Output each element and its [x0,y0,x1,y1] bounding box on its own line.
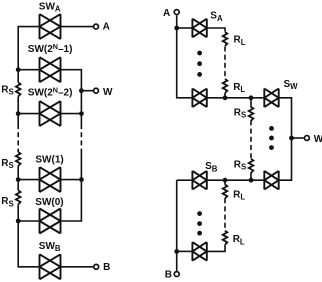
svg-text:A: A [103,22,110,33]
svg-text:RS: RS [234,159,246,171]
svg-text:B: B [165,270,172,281]
svg-text:RS: RS [1,196,13,208]
svg-text:SA: SA [210,11,223,23]
svg-text:SW(1): SW(1) [35,154,63,165]
svg-text:B: B [103,262,110,273]
svg-text:SW(2N–2): SW(2N–2) [28,85,73,98]
svg-text:SWB: SWB [39,241,61,253]
svg-text:SW(2N–1): SW(2N–1) [28,42,73,55]
svg-text:A: A [163,8,170,19]
svg-text:RS: RS [234,108,246,120]
svg-text:W: W [314,134,322,145]
svg-text:RL: RL [233,190,245,202]
svg-text:RL: RL [233,234,245,246]
svg-text:RS: RS [1,85,13,97]
svg-text:RL: RL [234,35,246,47]
svg-text:SW: SW [284,79,299,91]
svg-text:RS: RS [1,158,13,170]
svg-text:SWA: SWA [39,1,61,13]
svg-text:W: W [103,87,113,98]
svg-text:SW(0): SW(0) [35,197,63,208]
svg-text:SB: SB [205,161,218,173]
svg-text:RL: RL [233,82,245,94]
